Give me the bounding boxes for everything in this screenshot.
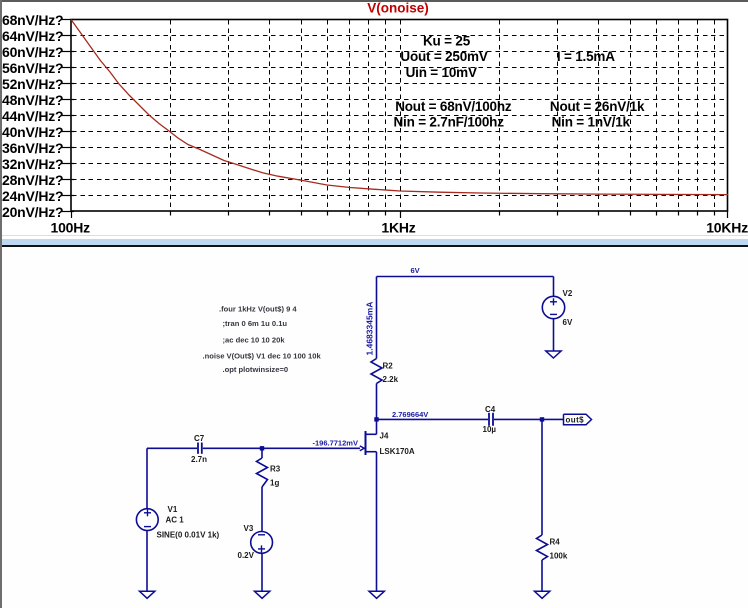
resistor R4 <box>537 535 548 560</box>
svg-text:2.2k: 2.2k <box>383 375 399 384</box>
svg-text:V3: V3 <box>244 524 254 533</box>
svg-text:Ku = 25: Ku = 25 <box>423 34 471 49</box>
wire R4 top <box>541 419 543 535</box>
svg-text:J4: J4 <box>380 431 389 440</box>
svg-text:0.2V: 0.2V <box>238 551 255 560</box>
svg-text:R4: R4 <box>550 538 561 547</box>
svg-text:2.769664V: 2.769664V <box>392 410 428 419</box>
schematic pane background <box>2 247 748 608</box>
noise trace V(onoise) <box>71 20 728 195</box>
ground under V2 <box>546 351 561 358</box>
svg-text:68nV/Hz?: 68nV/Hz? <box>2 12 63 28</box>
svg-text:10KHz: 10KHz <box>706 219 748 235</box>
svg-text:C7: C7 <box>194 434 205 443</box>
svg-text:6V: 6V <box>411 266 420 275</box>
svg-text:I = 1.5mA: I = 1.5mA <box>557 49 615 64</box>
svg-text:10µ: 10µ <box>483 425 497 434</box>
voltage source V1 circle <box>136 509 158 531</box>
svg-text:-196.7712mV: -196.7712mV <box>313 439 358 448</box>
svg-text:AC 1: AC 1 <box>166 516 185 525</box>
wire R3 top <box>261 448 263 458</box>
JFET J4 channel bar <box>365 431 367 455</box>
svg-text:1KHz: 1KHz <box>381 219 415 235</box>
svg-text:36nV/Hz?: 36nV/Hz? <box>2 140 63 156</box>
svg-text:SINE(0 0.01V 1k): SINE(0 0.01V 1k) <box>157 530 220 539</box>
svg-text:C4: C4 <box>485 405 496 414</box>
svg-text:40nV/Hz?: 40nV/Hz? <box>2 124 63 140</box>
svg-text:24nV/Hz?: 24nV/Hz? <box>2 188 63 204</box>
svg-text:.noise V(Out$) V1 dec 10 100 1: .noise V(Out$) V1 dec 10 100 10k <box>203 351 322 360</box>
JFET drain lead <box>366 433 377 435</box>
wire R4 bottom <box>541 560 543 591</box>
svg-text:Uout = 250mV: Uout = 250mV <box>400 49 487 64</box>
svg-text:100k: 100k <box>550 551 568 560</box>
wire R2 top to rail <box>376 277 378 359</box>
ground under V3 <box>255 591 270 598</box>
wire V1 top <box>146 448 148 508</box>
V3 minus plus flipped <box>258 535 265 553</box>
voltage source V3 circle <box>251 532 273 554</box>
svg-text:LSK170A: LSK170A <box>380 447 415 456</box>
wire R2 bottom to drain node <box>376 384 378 420</box>
wire C4 to out flag <box>494 418 564 420</box>
window left border <box>0 0 2 608</box>
wire V1 bottom <box>146 531 148 592</box>
wire R3 to V3 <box>261 487 263 532</box>
svg-text:;ac dec 10 10 20k: ;ac dec 10 10 20k <box>223 335 286 344</box>
junction dot R3 <box>260 446 264 450</box>
svg-text:R2: R2 <box>383 362 394 371</box>
ground under JFET source <box>369 591 384 598</box>
svg-text:60nV/Hz?: 60nV/Hz? <box>2 44 63 60</box>
junction dot drain <box>374 417 378 421</box>
svg-text:.four 1kHz V(out$) 9 4: .four 1kHz V(out$) 9 4 <box>219 305 297 314</box>
wire top rail <box>377 276 554 278</box>
wire drain node to C4 <box>377 418 489 420</box>
svg-text:32nV/Hz?: 32nV/Hz? <box>2 156 63 172</box>
svg-text:out$: out$ <box>566 416 585 425</box>
x axis labels <box>51 219 748 235</box>
window top border <box>0 0 748 2</box>
wire gate horizontal right segment <box>203 447 360 449</box>
wire gate horizontal left segment <box>147 447 197 449</box>
JFET gate arrow <box>360 446 364 451</box>
plot frame <box>71 20 728 212</box>
svg-text:.opt plotwinsize=0: .opt plotwinsize=0 <box>223 365 289 374</box>
svg-text:V(onoise): V(onoise) <box>367 1 429 16</box>
capacitor C7 <box>198 443 202 454</box>
svg-text:V1: V1 <box>168 505 178 514</box>
svg-text:52nV/Hz?: 52nV/Hz? <box>2 76 63 92</box>
voltage source V2 circle <box>542 296 564 318</box>
svg-text:Nout = 26nV/1k: Nout = 26nV/1k <box>550 99 645 114</box>
plot grid dashed lines <box>72 20 727 210</box>
svg-text:;tran 0 6m 1u 0.1u: ;tran 0 6m 1u 0.1u <box>223 319 288 328</box>
ground under R4 <box>535 591 550 598</box>
svg-text:56nV/Hz?: 56nV/Hz? <box>2 60 63 76</box>
JFET source lead <box>366 451 377 453</box>
svg-text:R3: R3 <box>270 465 281 474</box>
V1 plus minus <box>144 509 151 526</box>
svg-text:1g: 1g <box>270 479 279 488</box>
svg-text:6V: 6V <box>563 318 573 327</box>
svg-text:1.4683345mA: 1.4683345mA <box>364 302 374 356</box>
V2 plus minus <box>550 298 557 314</box>
wire V2 bottom <box>553 319 555 351</box>
svg-text:28nV/Hz?: 28nV/Hz? <box>2 172 63 188</box>
capacitor C4 <box>489 413 493 426</box>
wire V3 bottom <box>261 554 263 592</box>
svg-text:44nV/Hz?: 44nV/Hz? <box>2 108 63 124</box>
svg-text:20nV/Hz?: 20nV/Hz? <box>2 204 63 220</box>
wire source vertical <box>376 452 378 592</box>
resistor R3 <box>257 458 268 487</box>
svg-text:Nout = 68nV/100hz: Nout = 68nV/100hz <box>395 99 512 114</box>
svg-text:100Hz: 100Hz <box>51 219 91 235</box>
wire drain vertical <box>376 419 378 434</box>
svg-text:2.7n: 2.7n <box>191 455 207 464</box>
splitter band <box>0 235 748 237</box>
ground under V1 <box>140 591 155 598</box>
resistor R2 <box>371 359 382 384</box>
svg-text:48nV/Hz?: 48nV/Hz? <box>2 92 63 108</box>
svg-text:Nin = 1nV/1k: Nin = 1nV/1k <box>552 115 631 130</box>
svg-text:Nin = 2.7nF/100hz: Nin = 2.7nF/100hz <box>394 115 505 130</box>
out$ net flag <box>564 414 592 425</box>
svg-text:V2: V2 <box>563 289 573 298</box>
axis ticks <box>62 20 728 219</box>
wire V2 top <box>553 277 555 297</box>
svg-text:64nV/Hz?: 64nV/Hz? <box>2 28 63 44</box>
y axis labels <box>2 12 63 220</box>
junction dot out <box>540 417 544 421</box>
svg-text:Uin = 10mV: Uin = 10mV <box>406 65 477 80</box>
